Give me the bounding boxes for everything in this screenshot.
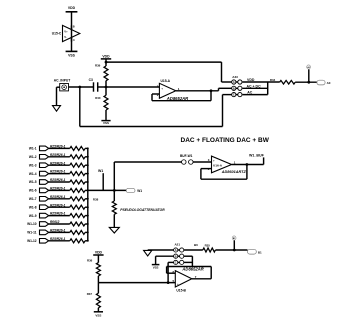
svg-text:W1-2: W1-2	[29, 155, 37, 159]
svg-text:B: B	[233, 87, 235, 90]
svg-text:A21: A21	[175, 242, 181, 246]
svg-text:VSS: VSS	[68, 53, 76, 57]
svg-text:W1-3: W1-3	[29, 163, 37, 167]
svg-text:R25/R26-1: R25/R26-1	[50, 161, 66, 165]
svg-text:VSS: VSS	[95, 313, 101, 317]
svg-text:AC: AC	[247, 91, 253, 95]
svg-text:R25/R26-1: R25/R26-1	[50, 178, 66, 182]
svg-text:W1-11: W1-11	[27, 231, 36, 235]
svg-text:W1-8: W1-8	[29, 205, 37, 209]
svg-text:R25/R26-1: R25/R26-1	[50, 237, 66, 241]
svg-text:B0: B0	[194, 243, 198, 247]
svg-text:C: C	[233, 94, 235, 97]
svg-text:+: +	[161, 86, 163, 90]
svg-text:R40: R40	[95, 96, 101, 100]
svg-text:A: A	[233, 81, 235, 84]
svg-text:AC_INPUT: AC_INPUT	[54, 78, 71, 82]
svg-text:+: +	[213, 158, 215, 162]
svg-text:A33: A33	[232, 75, 238, 79]
svg-text:W1-7: W1-7	[29, 197, 37, 201]
svg-text:R25/R26-1: R25/R26-1	[50, 212, 66, 216]
svg-text:R25/R26-1: R25/R26-1	[50, 187, 66, 191]
svg-text:R25/R26-1: R25/R26-1	[50, 229, 66, 233]
svg-text:R0612: R0612	[50, 220, 60, 224]
svg-text:V-: V-	[64, 35, 67, 39]
svg-text:VSS: VSS	[153, 265, 159, 269]
svg-text:W1-12: W1-12	[27, 239, 37, 243]
svg-text:AD8601ARTZ: AD8601ARTZ	[221, 170, 247, 174]
svg-text:W1-10: W1-10	[27, 222, 37, 226]
svg-text:W1-4: W1-4	[29, 172, 37, 176]
svg-text:U15-A: U15-A	[161, 79, 171, 83]
svg-text:W1-5: W1-5	[29, 180, 37, 184]
svg-text:W1-6: W1-6	[29, 189, 37, 193]
svg-text:R34: R34	[270, 78, 276, 82]
svg-text:+: +	[177, 282, 179, 286]
svg-text:W1_BUF: W1_BUF	[249, 153, 265, 157]
svg-text:DAC + FLOATING DAC + BW: DAC + FLOATING DAC + BW	[181, 137, 270, 144]
svg-text:VDD: VDD	[68, 6, 76, 10]
svg-text:B: B	[175, 255, 177, 258]
svg-text:V+: V+	[64, 30, 68, 34]
svg-text:AD8652AR: AD8652AR	[166, 96, 188, 101]
svg-text:R25/R26-1: R25/R26-1	[50, 153, 66, 157]
svg-text:A0: A0	[307, 66, 309, 69]
svg-text:C: C	[175, 262, 177, 265]
svg-text:A: A	[175, 249, 177, 252]
svg-text:R25/R26-1: R25/R26-1	[50, 195, 66, 199]
svg-text:W1: W1	[137, 189, 142, 193]
svg-text:R37: R37	[87, 292, 93, 296]
svg-text:PSEUDOLOGATTENUATOR: PSEUDOLOGATTENUATOR	[120, 208, 165, 212]
svg-text:AC + DC: AC + DC	[247, 85, 262, 89]
svg-text:R25/R26-1: R25/R26-1	[50, 203, 66, 207]
svg-text:R36: R36	[87, 259, 93, 263]
svg-text:VDD: VDD	[247, 78, 255, 82]
svg-text:VDD: VDD	[95, 251, 103, 255]
svg-text:VSS: VSS	[103, 121, 109, 125]
svg-text:U15-C: U15-C	[52, 32, 62, 36]
svg-text:R35: R35	[205, 244, 211, 248]
svg-text:W1-9: W1-9	[29, 214, 37, 218]
svg-text:R39: R39	[95, 64, 101, 68]
svg-text:W1-1: W1-1	[29, 147, 37, 151]
svg-text:BUF-W1: BUF-W1	[180, 154, 193, 158]
svg-text:U16-A: U16-A	[213, 163, 223, 167]
svg-text:VDD: VDD	[102, 54, 110, 58]
svg-text:AD8652AR: AD8652AR	[181, 267, 203, 272]
svg-text:B1: B1	[233, 238, 235, 240]
svg-text:A0: A0	[327, 81, 331, 85]
svg-text:C3: C3	[89, 78, 93, 82]
svg-text:U15-B: U15-B	[176, 288, 186, 292]
svg-text:W1: W1	[98, 169, 103, 173]
svg-text:R25/R26-1: R25/R26-1	[50, 145, 66, 149]
svg-text:B1: B1	[258, 250, 262, 254]
svg-text:R25/R26-1: R25/R26-1	[50, 170, 66, 174]
svg-text:R38: R38	[93, 198, 99, 202]
